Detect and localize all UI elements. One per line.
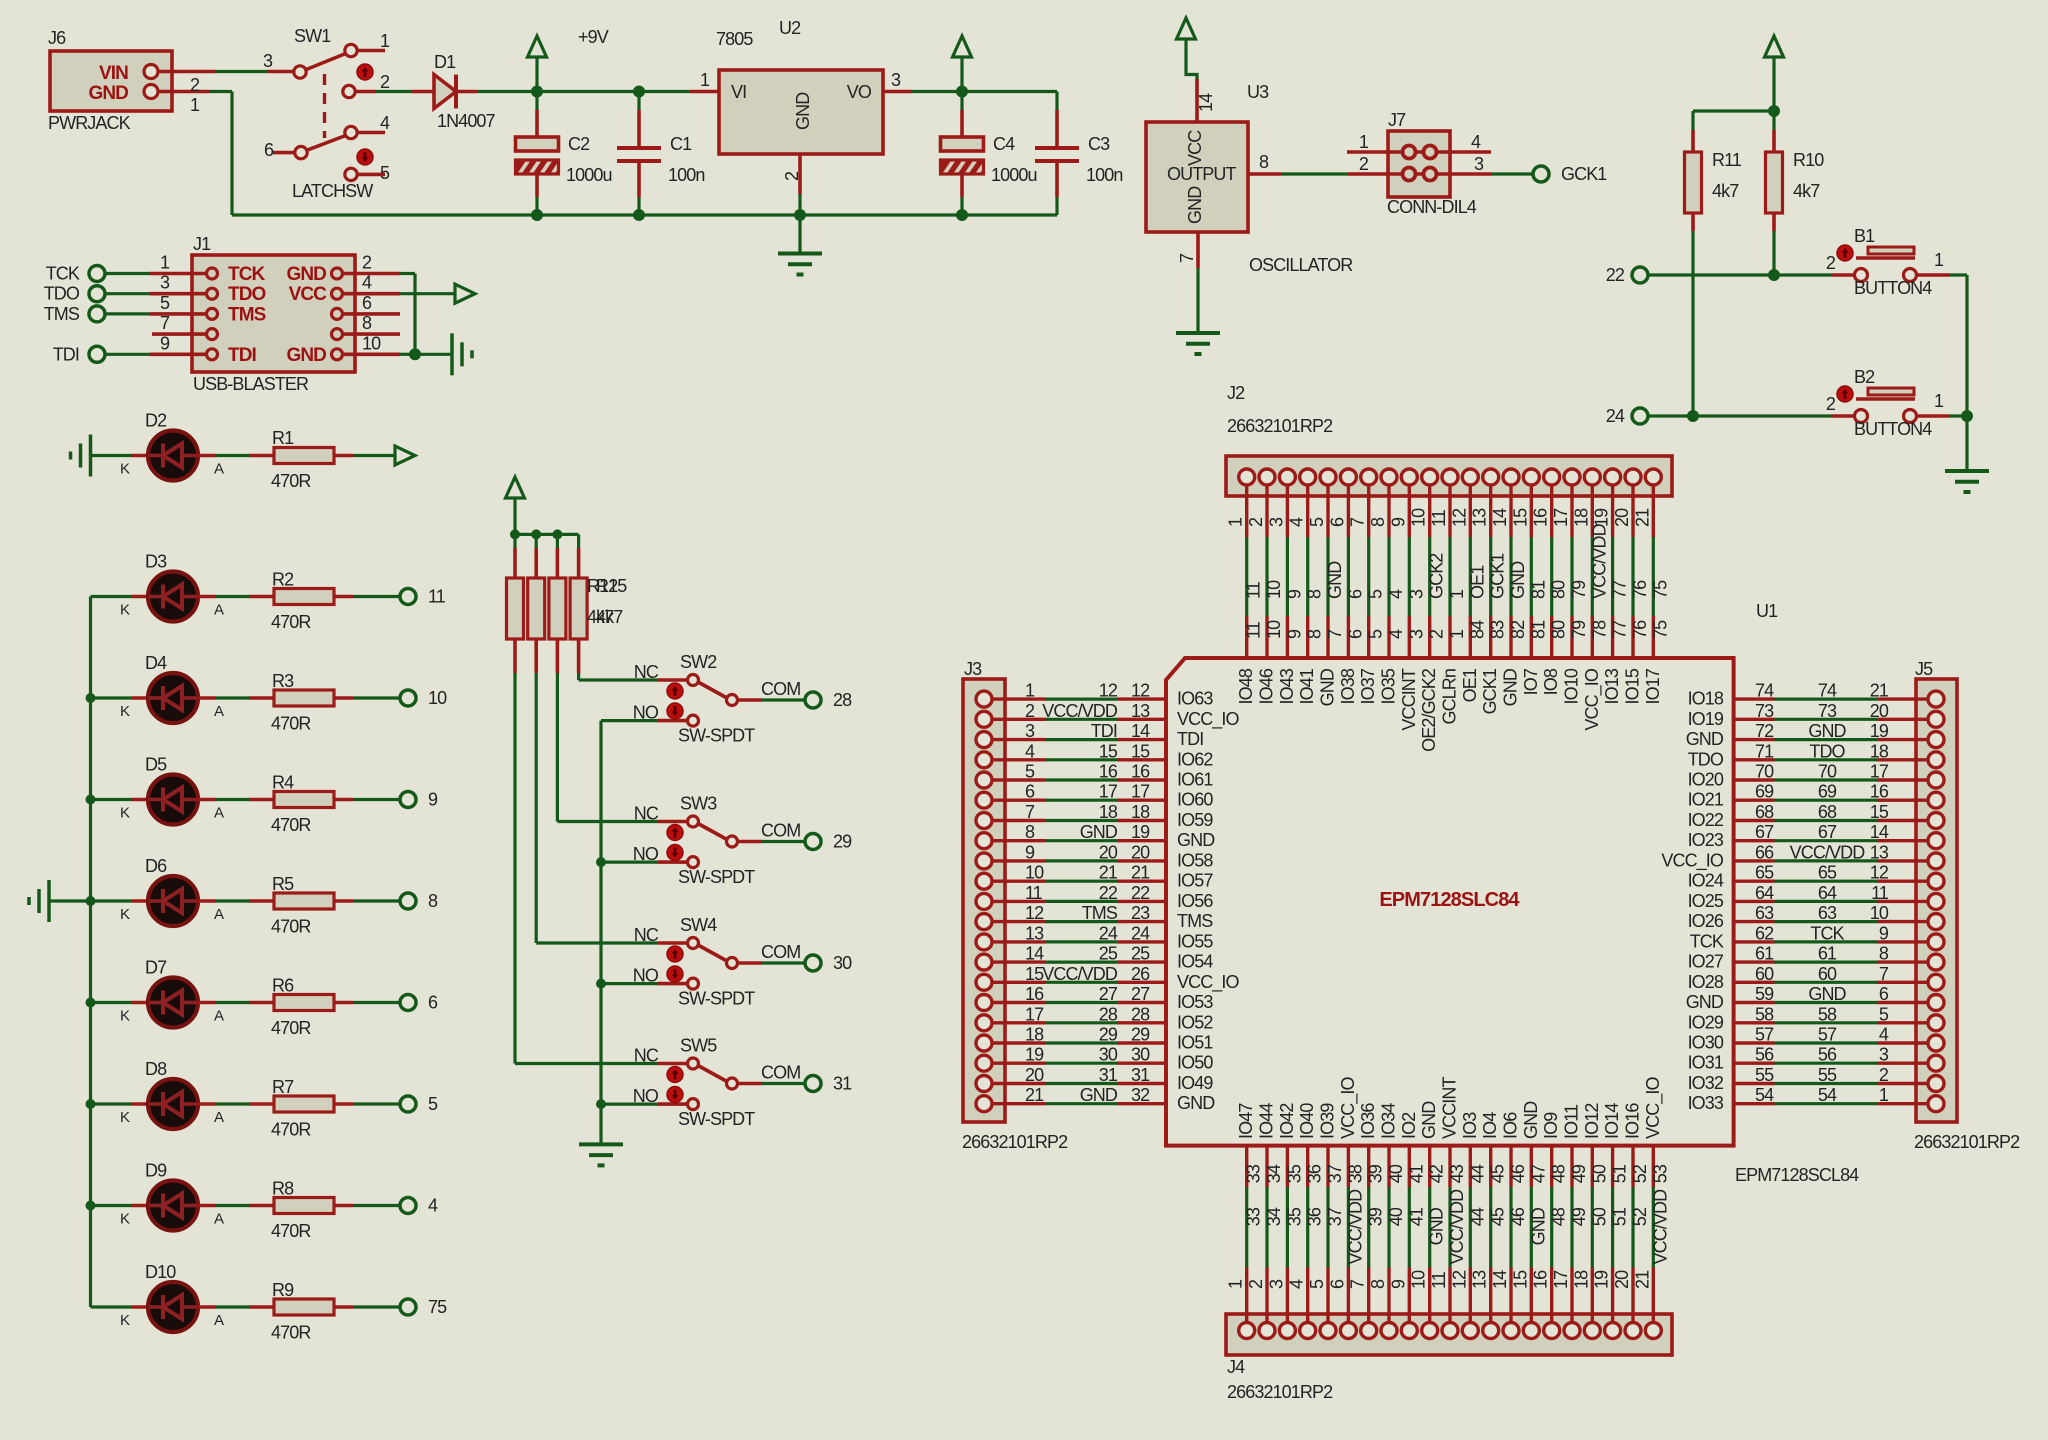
svg-text:31: 31 <box>833 1074 852 1094</box>
ground at switch bus <box>579 1142 623 1146</box>
svg-text:C4: C4 <box>993 134 1015 154</box>
svg-text:2: 2 <box>190 75 200 95</box>
svg-text:26: 26 <box>1131 964 1150 984</box>
svg-text:2: 2 <box>1246 1279 1266 1289</box>
capacitor C4 1000u <box>960 92 963 111</box>
svg-text:12: 12 <box>1870 863 1889 883</box>
svg-text:48: 48 <box>1549 1207 1569 1226</box>
svg-text:A: A <box>214 602 224 619</box>
svg-text:4k7: 4k7 <box>596 607 623 627</box>
svg-text:GCK2: GCK2 <box>1427 553 1447 599</box>
wire B1 to B2 <box>1950 273 1967 276</box>
svg-text:79: 79 <box>1569 620 1589 639</box>
J5 pin 1 / U1 pin 54 IO33 <box>1734 1102 1775 1105</box>
J3 pin 9 / U1 pin 20 IO58 <box>992 859 1045 862</box>
svg-text:82: 82 <box>1508 620 1528 639</box>
bus junction <box>86 998 96 1008</box>
svg-text:A: A <box>214 805 224 822</box>
svg-text:3: 3 <box>1025 721 1035 741</box>
svg-text:IO28: IO28 <box>1688 972 1724 992</box>
svg-text:20: 20 <box>1612 1270 1632 1289</box>
svg-text:26632101RP2: 26632101RP2 <box>1227 416 1333 436</box>
svg-text:14: 14 <box>1196 93 1216 112</box>
J1 pin 3 <box>207 288 218 299</box>
svg-text:56: 56 <box>1818 1045 1837 1065</box>
svg-text:9: 9 <box>428 790 438 810</box>
svg-text:GCK1: GCK1 <box>1561 164 1607 184</box>
svg-text:17: 17 <box>1131 782 1150 802</box>
svg-text:1: 1 <box>1447 589 1467 599</box>
svg-text:4: 4 <box>1386 589 1406 599</box>
terminal TMS <box>89 306 105 322</box>
svg-text:37: 37 <box>1325 1207 1345 1226</box>
svg-text:51: 51 <box>1610 1164 1630 1183</box>
svg-text:IO41: IO41 <box>1297 668 1317 704</box>
svg-text:8: 8 <box>1259 152 1269 172</box>
svg-text:17: 17 <box>1099 782 1118 802</box>
svg-text:GND: GND <box>1318 668 1338 706</box>
svg-text:66: 66 <box>1755 842 1774 862</box>
svg-text:29: 29 <box>833 832 852 852</box>
svg-text:9: 9 <box>1284 589 1304 599</box>
svg-text:A: A <box>214 906 224 923</box>
J2 pin 15 / U1 pin 81 IO7 <box>1530 485 1533 537</box>
svg-text:IO52: IO52 <box>1177 1012 1213 1032</box>
svg-text:IO15: IO15 <box>1623 668 1643 704</box>
svg-text:TDI: TDI <box>1177 729 1203 749</box>
svg-text:49: 49 <box>1569 1164 1589 1183</box>
svg-text:IO51: IO51 <box>1177 1033 1213 1053</box>
svg-text:470R: 470R <box>271 917 311 937</box>
svg-text:22: 22 <box>1099 883 1118 903</box>
svg-text:SW-SPDT: SW-SPDT <box>678 989 755 1009</box>
svg-text:470R: 470R <box>271 1221 311 1241</box>
svg-text:75: 75 <box>1650 580 1670 599</box>
svg-text:VCC_IO: VCC_IO <box>1661 850 1724 871</box>
svg-text:6: 6 <box>1879 984 1889 1004</box>
svg-text:COM: COM <box>761 679 800 699</box>
svg-text:21: 21 <box>1099 863 1118 883</box>
terminal 28 <box>805 692 821 708</box>
svg-text:LATCHSW: LATCHSW <box>292 181 373 201</box>
svg-text:71: 71 <box>1755 741 1774 761</box>
svg-text:A: A <box>214 1211 224 1228</box>
svg-text:2: 2 <box>362 253 372 273</box>
svg-text:75: 75 <box>1650 620 1670 639</box>
top rail of resistor pack <box>515 533 579 536</box>
svg-text:18: 18 <box>1571 1270 1591 1289</box>
svg-text:IO46: IO46 <box>1257 668 1277 704</box>
J3 pin 16 / U1 pin 27 IO53 <box>992 1001 1045 1004</box>
svg-text:TCK: TCK <box>46 264 80 284</box>
svg-text:VCC/VDD: VCC/VDD <box>1042 701 1118 721</box>
svg-text:OE2/GCK2: OE2/GCK2 <box>1419 668 1439 752</box>
terminal 22 <box>1632 267 1648 283</box>
svg-text:41: 41 <box>1406 1207 1426 1226</box>
svg-text:40: 40 <box>1386 1164 1406 1183</box>
svg-text:10: 10 <box>1409 1270 1429 1289</box>
svg-text:8: 8 <box>1305 589 1325 599</box>
resistor R1 470R <box>198 454 215 458</box>
svg-text:IO43: IO43 <box>1277 668 1297 704</box>
svg-text:GND: GND <box>1325 561 1345 599</box>
svg-text:K: K <box>120 906 130 923</box>
svg-text:1: 1 <box>1879 1085 1889 1105</box>
svg-text:NC: NC <box>634 804 659 824</box>
svg-text:21: 21 <box>1632 1270 1652 1289</box>
svg-text:IO12: IO12 <box>1582 1103 1602 1139</box>
resistor R5 470R <box>198 899 215 903</box>
J3 pin 11 / U1 pin 22 IO56 <box>992 900 1045 903</box>
svg-text:18: 18 <box>1870 741 1889 761</box>
svg-text:28: 28 <box>1099 1004 1118 1024</box>
terminal 30 <box>805 955 821 971</box>
svg-text:25: 25 <box>1099 944 1118 964</box>
svg-text:VCC_IO: VCC_IO <box>1338 1076 1359 1139</box>
svg-text:IO39: IO39 <box>1318 1103 1338 1139</box>
J1 pin 6 <box>332 308 343 319</box>
svg-text:18: 18 <box>1131 802 1150 822</box>
svg-text:8: 8 <box>1305 629 1325 639</box>
svg-text:VI: VI <box>731 82 746 102</box>
svg-text:U3: U3 <box>1247 82 1269 102</box>
svg-text:45: 45 <box>1488 1207 1508 1226</box>
J1 VCC power arrow <box>400 292 455 295</box>
power arrow above resistor pack <box>513 498 516 534</box>
svg-text:IO19: IO19 <box>1688 709 1724 729</box>
svg-text:36: 36 <box>1305 1207 1325 1226</box>
svg-text:470R: 470R <box>271 1018 311 1038</box>
svg-text:C3: C3 <box>1088 134 1110 154</box>
svg-text:9: 9 <box>1388 1279 1408 1289</box>
svg-text:A: A <box>214 461 224 478</box>
svg-text:1: 1 <box>1226 517 1246 527</box>
svg-text:J4: J4 <box>1227 1357 1245 1377</box>
svg-text:J7: J7 <box>1388 110 1406 130</box>
svg-text:IO17: IO17 <box>1643 668 1663 704</box>
svg-text:VCC/VDD: VCC/VDD <box>1790 842 1866 862</box>
svg-text:IO20: IO20 <box>1688 770 1724 790</box>
switch SW4 SW-SPDT <box>658 941 687 945</box>
J2 pin 19 / U1 pin 77 IO13 <box>1611 485 1614 537</box>
terminal 11 <box>400 589 416 605</box>
J4 pin 11 / U1 pin 43 VCCINT <box>1448 1146 1451 1187</box>
svg-text:5: 5 <box>1366 589 1386 599</box>
svg-text:14: 14 <box>1131 721 1150 741</box>
J4 pin 17 / U1 pin 49 IO11 <box>1570 1146 1573 1187</box>
svg-text:46: 46 <box>1508 1164 1528 1183</box>
svg-text:6: 6 <box>1327 1279 1347 1289</box>
svg-text:IO22: IO22 <box>1688 810 1724 830</box>
J1 pin 7 <box>207 329 218 340</box>
svg-text:IO37: IO37 <box>1358 668 1378 704</box>
svg-text:1: 1 <box>1447 629 1467 639</box>
terminal 6 <box>400 995 416 1011</box>
J3 pin 12 / U1 pin 23 TMS <box>992 920 1045 923</box>
svg-text:1000u: 1000u <box>566 165 612 185</box>
svg-text:68: 68 <box>1818 802 1837 822</box>
J1 pin 9 <box>207 349 218 360</box>
svg-text:IO3: IO3 <box>1460 1112 1480 1139</box>
svg-text:8: 8 <box>1879 944 1889 964</box>
wire +9V rail <box>537 90 639 93</box>
resistor R10 4k7 <box>1772 111 1775 130</box>
svg-text:4: 4 <box>362 273 372 293</box>
svg-text:J5: J5 <box>1915 659 1933 679</box>
svg-text:3: 3 <box>891 70 901 90</box>
bus junction <box>596 979 606 989</box>
svg-text:R2: R2 <box>272 570 294 590</box>
svg-text:6: 6 <box>428 993 438 1013</box>
svg-text:IO25: IO25 <box>1688 891 1724 911</box>
J3 pin 10 / U1 pin 21 IO57 <box>992 880 1045 883</box>
svg-text:4: 4 <box>1386 629 1406 639</box>
svg-text:7: 7 <box>1348 1279 1368 1289</box>
svg-text:SW-SPDT: SW-SPDT <box>678 867 755 887</box>
terminal 10 <box>400 690 416 706</box>
LED D6 <box>91 899 132 902</box>
svg-text:19: 19 <box>1131 822 1150 842</box>
svg-text:40: 40 <box>1386 1207 1406 1226</box>
J4 pin 10 / U1 pin 42 GND <box>1428 1146 1431 1187</box>
svg-text:20: 20 <box>1131 842 1150 862</box>
bus junction <box>596 857 606 867</box>
svg-text:41: 41 <box>1406 1164 1426 1183</box>
svg-text:19: 19 <box>1592 508 1612 527</box>
svg-text:B2: B2 <box>1854 367 1875 387</box>
power +5V arrow at U2 output <box>960 57 963 92</box>
svg-text:3: 3 <box>1266 517 1286 527</box>
svg-text:9: 9 <box>1879 923 1889 943</box>
svg-text:GND: GND <box>1177 1093 1215 1113</box>
resistor 4k7 (pack R12-R15) <box>535 534 538 548</box>
svg-text:13: 13 <box>1470 508 1490 527</box>
svg-text:6: 6 <box>1345 589 1365 599</box>
terminal 29 <box>805 834 821 850</box>
svg-text:COM: COM <box>761 942 800 962</box>
svg-text:IO58: IO58 <box>1177 850 1213 870</box>
svg-text:22: 22 <box>1131 883 1150 903</box>
svg-text:IO13: IO13 <box>1602 668 1622 704</box>
svg-text:81: 81 <box>1528 620 1548 639</box>
wire net 22 <box>1648 273 1831 276</box>
svg-text:R3: R3 <box>272 671 294 691</box>
J3 pin 18 / U1 pin 29 IO51 <box>992 1041 1045 1044</box>
J1 pin 10 <box>332 349 343 360</box>
svg-text:78: 78 <box>1589 620 1609 639</box>
terminal 24 <box>1632 408 1648 424</box>
svg-text:30: 30 <box>833 953 852 973</box>
capacitor C2 1000u <box>535 92 538 111</box>
J5 pin 21 / U1 pin 74 IO18 <box>1734 697 1775 700</box>
svg-text:IO2: IO2 <box>1399 1112 1419 1139</box>
svg-text:61: 61 <box>1755 944 1774 964</box>
svg-text:GND: GND <box>1686 729 1724 749</box>
svg-text:IO49: IO49 <box>1177 1073 1213 1093</box>
svg-text:43: 43 <box>1447 1164 1467 1183</box>
svg-text:9: 9 <box>1388 517 1408 527</box>
J2 pin 16 / U1 pin 80 IO8 <box>1550 485 1553 537</box>
svg-text:16: 16 <box>1531 1270 1551 1289</box>
svg-text:1: 1 <box>160 253 170 273</box>
J2 pin 13 / U1 pin 83 GCK1 <box>1489 485 1492 537</box>
resistor 4k7 (pack R12-R15) <box>513 534 516 548</box>
svg-text:62: 62 <box>1755 923 1774 943</box>
svg-text:15: 15 <box>1870 802 1889 822</box>
svg-text:3: 3 <box>263 51 273 71</box>
J1 pin 4 <box>332 288 343 299</box>
svg-text:14: 14 <box>1490 1270 1510 1289</box>
svg-text:5: 5 <box>1307 1279 1327 1289</box>
switch SW2 SW-SPDT <box>658 678 687 682</box>
svg-text:69: 69 <box>1755 782 1774 802</box>
wire net 24 <box>1648 414 1831 417</box>
J2 pin 6 / U1 pin 6 IO38 <box>1347 485 1350 537</box>
svg-text:IO53: IO53 <box>1177 992 1213 1012</box>
svg-text:GND: GND <box>1185 186 1205 224</box>
svg-text:32: 32 <box>1131 1085 1150 1105</box>
svg-text:VIN: VIN <box>99 63 128 84</box>
svg-text:3: 3 <box>160 273 170 293</box>
svg-text:IO42: IO42 <box>1277 1103 1297 1139</box>
svg-text:A: A <box>214 1008 224 1025</box>
svg-text:12: 12 <box>1099 681 1118 701</box>
svg-text:1: 1 <box>380 31 390 51</box>
svg-text:SW3: SW3 <box>680 794 717 814</box>
J3 pin 15 / U1 pin 26 VCC_IO <box>992 981 1045 984</box>
svg-text:15: 15 <box>1510 508 1530 527</box>
svg-text:14: 14 <box>1025 944 1044 964</box>
svg-text:29: 29 <box>1131 1025 1150 1045</box>
capacitor C1 100n <box>637 92 640 111</box>
svg-text:37: 37 <box>1325 1164 1345 1183</box>
svg-text:8: 8 <box>1025 822 1035 842</box>
svg-text:12: 12 <box>1025 903 1044 923</box>
svg-text:25: 25 <box>1131 944 1150 964</box>
svg-text:67: 67 <box>1818 822 1837 842</box>
svg-text:TDO: TDO <box>1688 749 1724 769</box>
svg-text:GND: GND <box>1686 992 1724 1012</box>
svg-text:16: 16 <box>1131 762 1150 782</box>
J2 pin 9 / U1 pin 3 VCCINT <box>1408 485 1411 537</box>
svg-text:65: 65 <box>1755 863 1774 883</box>
J4 pin 18 / U1 pin 50 IO12 <box>1591 1146 1594 1187</box>
J1 pin 2 <box>332 268 343 279</box>
svg-text:GND: GND <box>286 264 326 285</box>
svg-text:NC: NC <box>634 1046 659 1066</box>
svg-text:470R: 470R <box>271 1120 311 1140</box>
svg-text:31: 31 <box>1099 1065 1118 1085</box>
svg-text:IO56: IO56 <box>1177 891 1213 911</box>
J2 pin 7 / U1 pin 5 IO37 <box>1367 485 1370 537</box>
svg-text:4: 4 <box>1879 1025 1889 1045</box>
svg-text:J3: J3 <box>964 659 982 679</box>
svg-text:15: 15 <box>1099 741 1118 761</box>
svg-text:IO44: IO44 <box>1257 1103 1277 1139</box>
svg-text:A: A <box>214 1109 224 1126</box>
J1 pin 8 <box>332 329 343 340</box>
svg-text:73: 73 <box>1755 701 1774 721</box>
svg-text:57: 57 <box>1755 1025 1774 1045</box>
svg-text:IO14: IO14 <box>1602 1103 1622 1139</box>
J4 pin 20 / U1 pin 52 IO16 <box>1631 1146 1634 1187</box>
svg-text:35: 35 <box>1284 1207 1304 1226</box>
svg-text:10: 10 <box>1025 863 1044 883</box>
svg-text:11: 11 <box>1244 581 1264 599</box>
svg-text:D7: D7 <box>145 958 167 978</box>
svg-text:7805: 7805 <box>716 29 753 49</box>
resistor R9 470R <box>198 1305 215 1309</box>
svg-text:52: 52 <box>1630 1164 1650 1183</box>
svg-text:IO26: IO26 <box>1688 911 1724 931</box>
J3 pin 13 / U1 pin 24 IO55 <box>992 940 1045 943</box>
svg-text:33: 33 <box>1244 1207 1264 1226</box>
svg-text:U2: U2 <box>779 18 801 38</box>
svg-text:64: 64 <box>1818 883 1837 903</box>
svg-text:VCC: VCC <box>289 284 328 305</box>
svg-text:4: 4 <box>428 1196 438 1216</box>
svg-text:NO: NO <box>633 966 659 986</box>
terminal 5 <box>400 1096 416 1112</box>
svg-text:21: 21 <box>1131 863 1150 883</box>
J4 pin 6 / U1 pin 38 VCC_IO <box>1347 1146 1350 1187</box>
svg-text:45: 45 <box>1488 1164 1508 1183</box>
svg-text:74: 74 <box>1755 681 1774 701</box>
svg-text:GND: GND <box>1521 1101 1541 1139</box>
svg-text:R8: R8 <box>272 1179 294 1199</box>
svg-text:4k7: 4k7 <box>1712 181 1739 201</box>
svg-text:5: 5 <box>1307 517 1327 527</box>
svg-text:28: 28 <box>833 690 852 710</box>
svg-text:GCK1: GCK1 <box>1480 668 1500 714</box>
J5 pin 13 / U1 pin 66 VCC_IO <box>1734 859 1775 862</box>
svg-text:30: 30 <box>1131 1045 1150 1065</box>
svg-text:1: 1 <box>1025 681 1035 701</box>
svg-text:IO34: IO34 <box>1379 1103 1399 1139</box>
svg-text:16: 16 <box>1099 762 1118 782</box>
power arrow above R10 <box>1772 57 1775 111</box>
svg-text:11: 11 <box>428 587 446 607</box>
svg-text:IO59: IO59 <box>1177 810 1213 830</box>
svg-text:5: 5 <box>1025 762 1035 782</box>
ground rail <box>232 213 1057 216</box>
wire to GCK1 terminal <box>1491 172 1534 175</box>
svg-text:IO50: IO50 <box>1177 1053 1213 1073</box>
LED D5 <box>91 798 132 801</box>
svg-text:15: 15 <box>1510 1270 1530 1289</box>
svg-text:IO47: IO47 <box>1236 1103 1256 1139</box>
svg-text:IO27: IO27 <box>1688 952 1724 972</box>
svg-text:20: 20 <box>1612 508 1632 527</box>
J2 pin 1 / U1 pin 11 IO48 <box>1245 485 1248 537</box>
svg-text:GND: GND <box>1528 1207 1548 1245</box>
svg-text:72: 72 <box>1755 721 1774 741</box>
J2 pin 11 / U1 pin 1 GCLRn <box>1448 485 1451 537</box>
svg-text:10: 10 <box>1264 580 1284 599</box>
svg-text:76: 76 <box>1630 620 1650 639</box>
svg-text:IO62: IO62 <box>1177 749 1213 769</box>
J5 pin 11 / U1 pin 64 IO25 <box>1734 900 1775 903</box>
svg-text:D10: D10 <box>145 1262 176 1282</box>
svg-text:GND: GND <box>1508 561 1528 599</box>
svg-text:14: 14 <box>1490 508 1510 527</box>
svg-text:IO48: IO48 <box>1236 668 1256 704</box>
svg-text:63: 63 <box>1818 903 1837 923</box>
svg-text:15: 15 <box>1131 741 1150 761</box>
svg-text:IO4: IO4 <box>1480 1112 1500 1139</box>
svg-text:77: 77 <box>1610 580 1630 599</box>
svg-text:470R: 470R <box>271 1323 311 1343</box>
